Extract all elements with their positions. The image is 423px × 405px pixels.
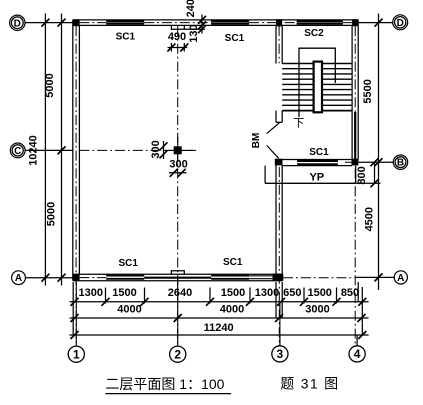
svg-text:4000: 4000 [220,303,244,315]
svg-text:二层平面图 1：100: 二层平面图 1：100 [105,376,224,392]
axis D dash-dot in top wall [79,22,352,24]
axis line 3 vertical dash-dot upper [278,26,280,63]
axis circle D right double [393,15,408,30]
row1 ticks [71,298,367,306]
svg-text:SC1: SC1 [118,258,138,269]
pier bottom extension line [184,28,205,30]
svg-text:4500: 4500 [363,207,375,231]
bottom dim row1 line [70,301,369,303]
pier 490x130 at axis2 top wall [171,25,184,29]
bottom dim row2 line [70,317,369,319]
right dim line main [378,14,380,291]
svg-text:SC1: SC1 [223,257,243,268]
axisC solid segment near column [165,149,193,151]
svg-text:SC1: SC1 [116,32,136,43]
top wall outer face line [73,19,358,21]
svg-text:850: 850 [341,287,359,299]
axis C line to circle [25,149,73,151]
stair bottom edge thick [282,110,352,112]
svg-text:D: D [397,18,404,29]
axis circle A right [394,271,407,284]
axis circle D left double [10,15,25,30]
axis circle B double [393,155,407,169]
svg-text:2640: 2640 [168,287,192,299]
right wing wall dark core below stairs [354,112,356,160]
YP canopy outline [265,166,356,184]
window SC1 top-middle glazing lines [211,22,249,24]
svg-text:1: 1 [73,347,80,361]
axis B dash-dot stub [345,161,358,163]
left wall outer face line [72,20,74,281]
svg-text:11240: 11240 [204,322,234,334]
svg-text:D: D [14,18,21,29]
stair treads [282,64,352,106]
bottom wall outer face line [73,280,282,282]
svg-text:1500: 1500 [307,287,331,299]
axis circle C double [10,143,25,158]
window SC1 top-left glazing lines [106,22,144,24]
tick 800 top [371,158,379,166]
svg-text:10240: 10240 [28,135,40,166]
tick 5000 at C [58,146,66,154]
svg-text:5000: 5000 [44,73,56,97]
window SC2 top-right glazing lines [297,22,343,24]
row2 texts [117,303,329,315]
bottom wall inner face line [73,273,282,275]
column axis3/A black [273,274,284,281]
axis2 solid extension to circle [177,276,179,346]
svg-text:4: 4 [354,347,361,361]
bottom dim row3 line [70,334,369,336]
window SC1 bottom-left glazing lines [106,276,144,279]
svg-text:1300: 1300 [79,287,103,299]
stair walking line [299,48,335,117]
svg-text:650: 650 [283,287,301,299]
stairwell left wall below stairs segment [276,111,282,123]
svg-text:1300: 1300 [255,287,279,299]
pier 490x130 at axis2 bottom wall [171,271,184,275]
row1 extension bars [106,288,337,304]
column axis1/A black [73,274,80,281]
right end extension line [361,287,363,336]
svg-text:5500: 5500 [362,79,374,103]
tick 10240 at D [41,19,49,27]
bottom wall right segment double lines [249,276,276,279]
column axis3/B black [275,159,283,166]
svg-text:SC1: SC1 [309,147,329,158]
axis line 3 vertical dash-dot lower [278,167,280,346]
axis circle 1 [68,346,84,362]
right wing wall (axis4) face lines [352,20,358,160]
column 300x300 at axis2/C [174,146,182,154]
svg-text:800: 800 [356,166,368,184]
tick 5000 at A [58,274,66,282]
axis line 1 vertical dash-dot [75,26,77,346]
svg-text:5000: 5000 [46,202,58,226]
tick right at B [375,158,383,166]
title underline [105,393,231,395]
axis1 solid extension to circle [75,282,77,346]
axis circle 4 [349,346,365,362]
tick 10240 at A [41,274,49,282]
BM leader upper [267,123,280,134]
svg-text:300: 300 [150,140,162,158]
axis C dash-dot interior [79,149,197,151]
svg-text:4000: 4000 [117,303,141,315]
axis A dash-dot right segment [283,277,356,279]
svg-text:1500: 1500 [221,287,245,299]
column dim 300 vertical [163,141,165,159]
axis circle 2 [170,346,186,362]
tick 5000 at D [58,19,66,27]
axis2 solid segment near column [177,137,179,162]
dim 490 ticks [167,44,175,52]
column axis1/D black [73,19,80,26]
bottom wall poche band middle segment [144,277,211,279]
dim line 800 [374,162,376,183]
axis A line to left circle [25,277,72,279]
svg-text:A: A [15,273,22,284]
stair central divider [314,62,322,113]
column axis3/D black [276,19,282,26]
svg-text:B: B [397,158,404,169]
wall face extension below axis4 [357,282,359,303]
window SC1 bottom-right glazing lines [211,276,249,279]
svg-text:SC2: SC2 [304,28,324,39]
svg-text:300: 300 [169,159,187,171]
axis circle 3 [272,346,288,362]
tick 800 bottom [371,179,379,187]
column axis4/B black [352,159,359,166]
lower wall on axis3 face lines [276,165,282,274]
dim 490 extension bars [170,43,172,52]
svg-text:C: C [14,146,21,157]
axis A line to right circle [356,276,394,278]
left dim line 5000/5000 [61,14,63,286]
row2 ticks [71,314,366,322]
top wall inner face line [73,24,358,26]
svg-text:490: 490 [168,31,186,43]
tick right at D [375,19,383,27]
svg-text:3: 3 [277,347,284,361]
ticks 240/130 [198,16,206,24]
svg-text:130: 130 [188,24,200,42]
svg-text:3000: 3000 [305,303,329,315]
axis B line to circle [358,161,393,163]
stems to bottom circles [279,335,281,346]
stairwell left wall upper segment (axis3) [276,25,282,63]
svg-text:YP: YP [309,171,324,183]
extension line YP bottom right [356,182,381,184]
dim 490 line [168,47,188,49]
column axis4/D black [352,19,358,26]
wall face extension below axis3 left [275,282,277,319]
left wall inner face line [78,25,80,274]
dim 240/130 vertical line [201,15,203,34]
axis line 2 vertical dash-dot [177,26,179,346]
window SC1 on wall B glazing lines [297,161,338,164]
svg-text:A: A [397,273,404,284]
svg-text:SC1: SC1 [225,33,245,44]
axis3 solid extension to circle [279,302,281,335]
wall B face lines [282,160,352,166]
row1 texts [79,287,360,299]
svg-text:1500: 1500 [112,287,136,299]
axis A dash-dot in bottom wall left segment [79,277,106,279]
BM leader lower [267,145,279,158]
svg-text:BM: BM [251,133,262,149]
svg-text:240: 240 [185,0,197,17]
svg-text:题 31 图: 题 31 图 [280,376,339,392]
svg-text:下: 下 [293,117,304,129]
axis circle A left [12,271,26,285]
tick right at A [375,273,383,281]
axis D line to left circle [25,22,73,24]
column dim 300 horizontal [169,172,187,174]
axis D line to right circle [358,22,392,24]
row3 ticks [71,331,367,339]
wall face extension below axis1 [72,282,74,336]
left dim line 10240 [44,14,46,286]
svg-text:2: 2 [174,347,181,361]
axis line 4 vertical dash-dot [354,26,356,346]
